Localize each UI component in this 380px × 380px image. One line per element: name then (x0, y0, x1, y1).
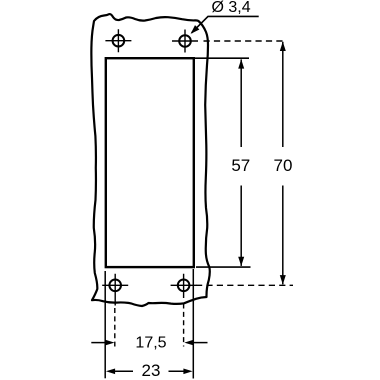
svg-text:17,5: 17,5 (135, 334, 166, 351)
svg-text:Ø 3,4: Ø 3,4 (212, 0, 251, 16)
extension line 23 right (192, 269, 194, 379)
hole top-left: circle (113, 35, 125, 47)
dimension 23 arrowhead right-pointing (183, 369, 192, 375)
dimension 23 line right (169, 370, 186, 372)
extension line bottom (cutout bottom edge) (196, 266, 251, 268)
extension line top (cutout top edge) (195, 57, 250, 59)
dimension 57 arrowhead down (238, 257, 244, 266)
hole bottom-right: crosshair (171, 274, 197, 298)
panel torn outline (91, 14, 209, 306)
hole axis dashed extension left (114, 308, 116, 347)
svg-text:23: 23 (142, 361, 161, 380)
hole top-right: crosshair (172, 30, 198, 53)
svg-text:57: 57 (231, 156, 250, 175)
hole axis dashed extension right (183, 304, 185, 347)
hole bottom-left: circle (109, 280, 121, 292)
centre line dashed bottom (196, 284, 293, 286)
dimension 17,5 line right (192, 342, 208, 344)
dimension 17,5 line left (91, 342, 107, 344)
leader arrowhead (191, 25, 200, 34)
dimension 17,5 arrowhead left-pointing (184, 340, 193, 346)
dimension 70 arrowhead up (280, 42, 286, 51)
dimension 70 line upper (282, 42, 284, 147)
leader line for hole diameter (192, 16, 259, 32)
hole top-left: crosshair (105, 29, 131, 52)
hole bottom-left: crosshair (102, 274, 128, 306)
dimension 70 line lower (282, 186, 284, 285)
dimension 57 line lower (240, 186, 242, 266)
hole bottom-right: circle (178, 280, 190, 292)
dimension 23 arrowhead left-pointing (106, 369, 115, 375)
dimension 17,5 arrowhead right-pointing (105, 340, 114, 346)
dimension 57 arrowhead up (238, 59, 244, 68)
hole top-right: circle (179, 35, 191, 47)
centre line dashed top (204, 40, 287, 42)
dimension 23 line left (113, 370, 133, 372)
cutout rectangle (106, 58, 194, 267)
dimension 57 line upper (240, 59, 242, 147)
svg-text:70: 70 (274, 156, 293, 175)
dimension 70 arrowhead down (280, 275, 286, 284)
extension line 23 left (104, 271, 106, 378)
